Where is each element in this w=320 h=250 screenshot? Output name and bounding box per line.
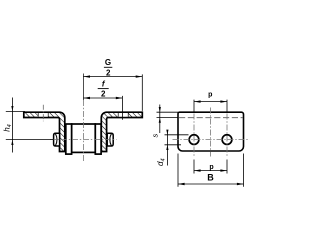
dimension d4 (left of plate, hole): [156, 130, 189, 166]
svg-text:s: s: [151, 134, 160, 138]
dimension B (bottom): [178, 154, 244, 187]
dimension s (left of plate): [151, 105, 179, 138]
hidden bend line (dashed): [179, 117, 243, 119]
pin horizontal centerline: [50, 139, 117, 141]
svg-text:B: B: [207, 172, 214, 182]
hole left: [189, 135, 199, 145]
dimension p (bottom): [194, 160, 227, 174]
dimension h4 (left): [3, 98, 54, 153]
dimension p (top): [194, 92, 227, 112]
plate outline: [178, 112, 244, 151]
svg-text:G: G: [105, 58, 111, 67]
right bent attachment plate (hatched): [101, 112, 142, 151]
pin end cap right: [107, 133, 113, 146]
plate central centerline: [210, 108, 212, 157]
svg-text:2: 2: [101, 89, 106, 98]
svg-text:p: p: [208, 92, 212, 99]
chain vertical centerline: [82, 74, 84, 101]
inner link plate right: [95, 124, 101, 154]
svg-text:p: p: [209, 164, 213, 171]
left leg hole centerline: [42, 105, 44, 121]
hole right: [222, 135, 232, 145]
bolt hole gap in left leg: [38, 113, 48, 117]
holes horizontal centerline: [173, 139, 249, 141]
bolt hole gap in right leg: [118, 113, 128, 117]
hole left vertical centerline: [193, 114, 195, 158]
dimension f/2: [83, 80, 122, 120]
left bent attachment plate (hatched): [24, 112, 65, 151]
roller (center): [72, 124, 96, 152]
pin end cap left: [54, 133, 60, 146]
inner link plate left: [66, 124, 72, 154]
dimension G/2: [83, 58, 142, 111]
hole right vertical centerline: [226, 114, 228, 158]
